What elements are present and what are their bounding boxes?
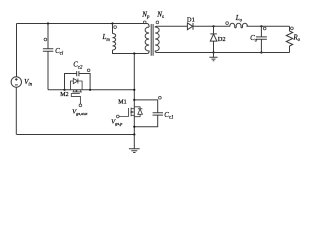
polarity marker at Lm xyxy=(114,26,117,29)
label D1 xyxy=(187,17,195,24)
terminal circle M2 gate xyxy=(79,104,82,107)
label Vgs,p xyxy=(111,119,123,128)
svg-text:Np: Np xyxy=(141,10,150,20)
label Np xyxy=(141,10,150,20)
wire D2 upper xyxy=(213,26,215,34)
node C c1 top xyxy=(133,99,135,101)
node bottom rail M1 xyxy=(133,133,135,135)
wire Co upper xyxy=(260,26,262,37)
dot marker Np xyxy=(143,21,146,24)
wire secondary top xyxy=(157,25,187,27)
wire top rail xyxy=(17,24,150,28)
label Ro xyxy=(292,33,300,43)
label M2 xyxy=(60,92,68,98)
transformer core xyxy=(151,24,153,56)
node Cc2 right xyxy=(89,89,91,91)
polarity marker at Cc2 xyxy=(87,69,90,72)
wire Lm top xyxy=(112,24,114,34)
wire M1 vertical xyxy=(133,54,135,135)
dot marker Ns xyxy=(156,21,159,24)
node Cc2 left xyxy=(63,89,65,91)
label Lo xyxy=(235,14,243,24)
svg-text:Ccl: Ccl xyxy=(55,47,64,57)
transistor M2 body diode xyxy=(71,78,83,89)
wire left rail upper xyxy=(16,24,18,77)
label D2 xyxy=(218,36,226,43)
transformer primary winding Np xyxy=(145,27,149,54)
transistor M2 channel and gate xyxy=(71,90,82,104)
wire bottom rail primary xyxy=(17,134,135,136)
node Co bottom xyxy=(260,51,262,53)
transistor M1 gate and channel xyxy=(119,108,134,117)
wire Co lower xyxy=(260,39,262,52)
node M1 drain wire top xyxy=(133,52,135,54)
wire D1 to Lo xyxy=(193,25,230,27)
svg-text:Cc1: Cc1 xyxy=(164,111,173,121)
svg-text:D2: D2 xyxy=(218,36,226,43)
ground secondary xyxy=(209,53,217,61)
svg-text:Lm: Lm xyxy=(102,33,111,43)
node clamp to M1 wire xyxy=(133,89,135,91)
label Ccl xyxy=(55,47,64,57)
diode D1 xyxy=(187,23,193,30)
svg-text:Ro: Ro xyxy=(292,33,300,43)
svg-text:M2: M2 xyxy=(60,92,68,98)
transistor M1 body diode xyxy=(134,107,142,117)
wire left rail lower xyxy=(15,87,17,134)
svg-text:Vgs,aux: Vgs,aux xyxy=(72,108,87,117)
capacitor Ccl xyxy=(43,49,53,52)
wire clamp branch horizontal xyxy=(48,89,134,91)
polarity marker at Lo xyxy=(226,22,229,25)
label Vin xyxy=(24,78,33,88)
node Co top xyxy=(260,25,262,27)
polarity marker at Ro xyxy=(291,27,294,30)
diode D2 xyxy=(210,34,217,41)
label Ns xyxy=(156,10,164,20)
wire Ccl upper xyxy=(47,24,49,49)
resistor Ro xyxy=(286,31,292,46)
label Cc2 xyxy=(73,61,83,71)
svg-text:Co: Co xyxy=(250,34,258,44)
wire Lo to Ro xyxy=(246,25,289,27)
wire Ccl lower xyxy=(47,51,49,90)
svg-text:Cc2: Cc2 xyxy=(73,61,83,71)
label M1 xyxy=(118,100,126,106)
polarity marker at Cc1 xyxy=(159,96,162,99)
svg-text:Vin: Vin xyxy=(24,78,33,88)
label Cc1 xyxy=(164,111,173,121)
ground primary xyxy=(129,135,140,153)
node top of Ccl branch xyxy=(47,22,49,24)
label Vgs,aux xyxy=(72,108,87,117)
capacitor Cc1 xyxy=(153,113,163,115)
node D2 top xyxy=(212,25,214,27)
inductor Lm xyxy=(113,34,116,50)
svg-text:Vgs,p: Vgs,p xyxy=(111,119,123,128)
polarity marker at Co xyxy=(263,27,266,30)
wire Cc2 loop right xyxy=(79,74,90,90)
wire Lm bottom xyxy=(113,50,148,54)
source Vin xyxy=(11,77,21,87)
wire Cc1 top xyxy=(134,100,157,113)
terminal circle M1 gate xyxy=(116,115,119,118)
label Lm xyxy=(102,33,111,43)
capacitor Cc2 xyxy=(77,71,79,76)
inductor Lo xyxy=(230,23,248,27)
wire Ro upper xyxy=(289,26,291,31)
wire Ro lower xyxy=(289,46,291,53)
label Co xyxy=(250,34,258,44)
node Lm top xyxy=(111,22,113,24)
wire Cc1 bottom xyxy=(134,115,157,127)
wire secondary bottom rail xyxy=(157,52,289,54)
capacitor Co xyxy=(256,37,267,39)
svg-text:D1: D1 xyxy=(187,17,195,24)
wire Cc2 loop left xyxy=(65,74,77,90)
svg-text:Lo: Lo xyxy=(235,14,243,24)
svg-text:Ns: Ns xyxy=(156,10,164,20)
polarity marker at Ccl xyxy=(44,38,47,41)
node D2 bottom xyxy=(212,51,214,53)
transformer secondary winding Ns xyxy=(155,26,159,52)
svg-text:M1: M1 xyxy=(118,100,126,106)
node Cc1 bottom xyxy=(133,126,135,128)
wire D2 lower xyxy=(213,41,215,52)
